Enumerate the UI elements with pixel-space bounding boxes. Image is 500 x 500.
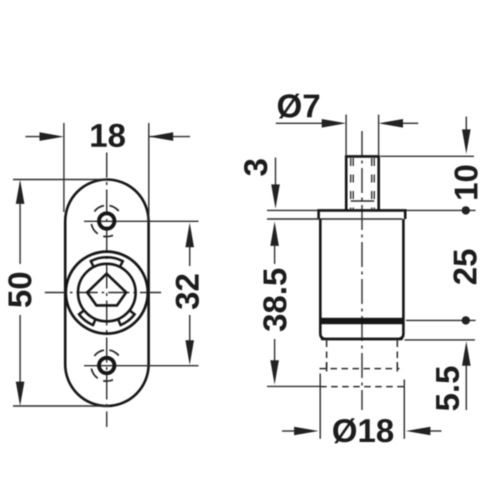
hidden lower outline dashed line xyxy=(320,386,405,388)
dimension 10 label (rotated) xyxy=(454,166,477,199)
hidden boss bottom dashed line xyxy=(320,368,400,370)
dimension 18: dimension line + arrows xyxy=(25,136,42,138)
dimension 50: dimension line + arrows xyxy=(16,180,25,204)
dimension Ø18 label xyxy=(333,418,393,443)
thread root dashed lines xyxy=(350,158,352,209)
black cam band xyxy=(319,318,404,324)
body outline xyxy=(320,219,403,339)
vertical centerline (left view) xyxy=(106,153,108,428)
dimension 3 label (rotated) xyxy=(244,159,267,175)
top screw hole xyxy=(99,213,114,228)
stud top extension line (right) xyxy=(381,155,475,157)
top screw hole dashed circle xyxy=(91,206,118,237)
horizontal centerline (left view, through cylinder center) xyxy=(45,292,162,294)
cam band extension line (right) xyxy=(406,319,476,321)
dimension Ø18: dimension line + arrows xyxy=(282,430,295,432)
body bottom extension line (right) xyxy=(405,339,476,341)
dimension Ø18: extension lines xyxy=(319,374,321,439)
dimension 5.5: arrow + line xyxy=(462,341,471,365)
dimension 38.5: arrows + line xyxy=(270,222,279,246)
dimension 38.5 bottom extension line xyxy=(267,385,320,387)
bottom hole centerline (horizontal) xyxy=(84,365,199,367)
dimension 10: arrow + dot xyxy=(465,117,467,132)
dimension 18: extension lines xyxy=(63,123,65,212)
dimension 25 label (rotated) xyxy=(453,250,476,285)
dimension Ø7: extension lines xyxy=(345,115,347,155)
dimension 32: dimension line + arrows xyxy=(185,223,194,248)
cam ring arcs xyxy=(78,257,135,326)
cylinder outer circle xyxy=(66,252,148,334)
dimension Ø7: dimension line + arrows xyxy=(276,122,322,124)
dimension 18 label xyxy=(91,124,125,147)
dimension Ø7 label xyxy=(278,94,319,119)
bottom screw hole dashed circle xyxy=(91,350,118,381)
dimension 50 label (rotated) xyxy=(8,273,31,307)
thread runout line xyxy=(351,200,375,202)
dimension 50: extension lines xyxy=(13,179,107,181)
top hole centerline (horizontal) xyxy=(84,220,199,222)
hidden lower boss: dashed verticals xyxy=(326,341,328,372)
dimension 5.5 label (rotated) xyxy=(436,367,459,411)
dimension 3: left extension overshoot handled above; dimension line + arrows xyxy=(275,158,277,187)
flange (collar) xyxy=(319,210,406,219)
dimension 25: dots xyxy=(462,316,470,324)
vertical centerline (right view) xyxy=(361,131,363,410)
cylinder inner circle xyxy=(78,264,136,322)
dimension 32 label (rotated) xyxy=(176,275,199,310)
flange top extension line (right) xyxy=(407,209,476,211)
square spindle hole (diamond with chamfer) xyxy=(87,274,126,306)
dimension 38.5 label (rotated) xyxy=(263,269,286,332)
plate outline (stadium) xyxy=(65,180,148,407)
threaded stud outline xyxy=(346,156,379,210)
bottom screw hole xyxy=(99,358,114,373)
